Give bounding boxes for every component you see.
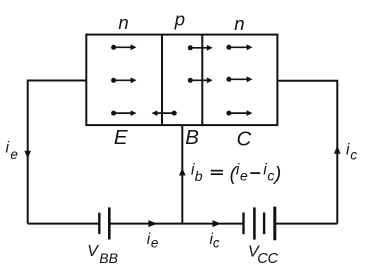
carrier hole B row3 crossing junction left — [152, 110, 177, 116]
svg-text:n: n — [234, 13, 244, 34]
carrier electron E row1 — [111, 44, 136, 50]
svg-text:i: i — [6, 140, 10, 157]
carrier electron C row2 — [226, 76, 252, 82]
label ic bottom — [210, 231, 220, 250]
label B — [185, 126, 199, 149]
svg-text:b: b — [195, 168, 203, 184]
battery VCC cell1 — [244, 207, 255, 239]
wire bottom right segment — [275, 223, 338, 225]
carrier electron E row3 — [111, 110, 136, 116]
label C — [237, 128, 252, 151]
svg-text:): ) — [273, 163, 282, 185]
svg-text:B: B — [185, 126, 199, 149]
label n collector region — [234, 13, 244, 34]
svg-text:C: C — [237, 128, 252, 151]
wire bottom middle segment — [109, 223, 243, 225]
current arrow ib on base lead (up) — [179, 168, 186, 175]
carrier electron E row2 — [111, 77, 136, 83]
svg-text:E: E — [114, 126, 128, 149]
current arrow ic on collector lead (up) — [334, 146, 341, 154]
svg-text:e: e — [10, 147, 18, 162]
transistor body npn block — [86, 35, 277, 126]
svg-text:c: c — [213, 235, 220, 250]
current arrow ie on bottom wire (right) — [148, 220, 157, 227]
wire base lead — [181, 125, 183, 224]
wire bottom left segment — [28, 223, 100, 225]
svg-text:V: V — [87, 243, 99, 260]
carrier electron B row2 crossing junction — [188, 77, 213, 83]
label n emitter region — [118, 12, 128, 33]
current arrow ie on emitter lead (down) — [24, 151, 31, 159]
svg-text:i: i — [346, 141, 350, 158]
carrier electron C row1 — [226, 44, 252, 50]
svg-text:BB: BB — [99, 250, 118, 266]
svg-text:p: p — [174, 8, 185, 29]
label VBB — [87, 243, 118, 266]
label ic right — [346, 141, 357, 162]
carrier electron B row1 crossing junction — [188, 45, 213, 51]
junction line E-B — [161, 35, 163, 126]
label p base region — [174, 8, 185, 29]
carrier electron C row3 — [226, 110, 252, 116]
wire collector lead — [277, 81, 337, 224]
battery VBB — [99, 207, 109, 239]
label ib = (ie - ic) — [191, 162, 281, 185]
label ie bottom — [147, 231, 159, 250]
current arrow ic on bottom wire (right) — [213, 220, 221, 227]
battery VCC cell2 — [264, 207, 275, 241]
wire emitter lead — [28, 81, 87, 224]
svg-text:c: c — [267, 167, 274, 183]
label ie left — [6, 140, 18, 162]
svg-text:c: c — [350, 148, 357, 163]
svg-text:e: e — [240, 168, 248, 184]
label E — [114, 126, 128, 149]
svg-text:e: e — [151, 235, 159, 250]
svg-text:CC: CC — [257, 251, 278, 267]
junction line B-C — [201, 35, 203, 126]
svg-text:n: n — [118, 12, 128, 33]
label VCC — [248, 243, 279, 267]
